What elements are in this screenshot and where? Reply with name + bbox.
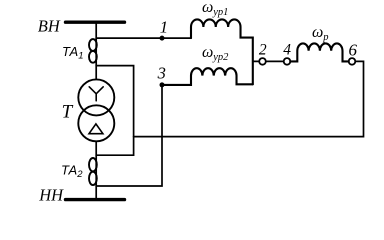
- node 1: [160, 36, 165, 41]
- node 4: [284, 58, 291, 65]
- transformer T winding 1: [78, 79, 114, 115]
- svg-text:1: 1: [160, 17, 169, 36]
- transformer T winding 2: [78, 105, 114, 141]
- wire node1 takeoff: [96, 37, 191, 39]
- svg-text:Т: Т: [62, 102, 74, 123]
- svg-text:ТА2: ТА2: [61, 162, 83, 180]
- svg-text:ТА1: ТА1: [62, 44, 83, 62]
- svg-text:ωур2: ωур2: [202, 44, 229, 63]
- node 6: [349, 58, 356, 65]
- winding star Y: [89, 87, 103, 101]
- wire node2-node4: [266, 60, 284, 62]
- svg-text:НН: НН: [38, 185, 64, 204]
- svg-text:4: 4: [283, 42, 291, 59]
- svg-text:ВН: ВН: [38, 17, 61, 36]
- current transformer TA1: [89, 39, 97, 63]
- wire TA1 lower terminal loop to TA2 upper terminal: [96, 66, 133, 156]
- wire tap to node 2: [253, 60, 259, 62]
- wire return rail from node 6: [134, 61, 364, 136]
- svg-text:6: 6: [349, 41, 358, 60]
- svg-text:ωур1: ωур1: [202, 0, 228, 18]
- svg-text:3: 3: [157, 63, 166, 82]
- winding delta: [89, 124, 103, 134]
- node 2: [259, 58, 266, 65]
- svg-text:ωр: ωр: [312, 24, 329, 43]
- busbar HH: [66, 198, 125, 201]
- node 3: [160, 82, 165, 87]
- wire HV vertical: [95, 22, 97, 79]
- winding ω_yp2: [162, 68, 253, 85]
- busbar BH: [66, 21, 125, 24]
- svg-text:2: 2: [259, 42, 267, 59]
- wire LV vertical: [95, 142, 97, 198]
- wire node3 down to TA2 lower terminal: [96, 85, 162, 186]
- winding ω_yp1: [191, 19, 253, 84]
- winding ω_p: [290, 43, 348, 61]
- current transformer TA2: [89, 158, 97, 185]
